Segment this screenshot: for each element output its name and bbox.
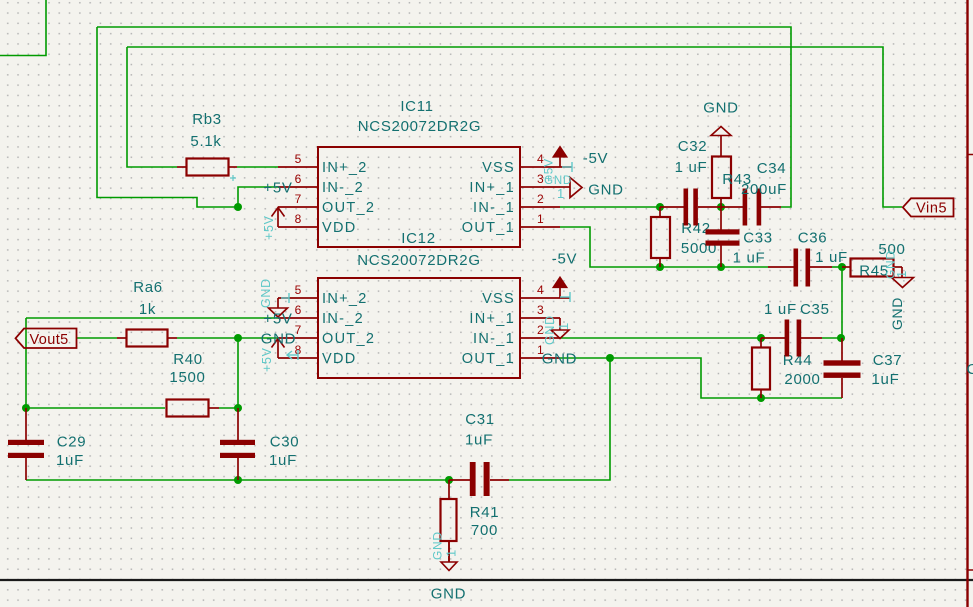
svg-text:+5V: +5V [263, 180, 292, 197]
svg-text:1k: 1k [139, 301, 156, 318]
svg-text:R41: R41 [470, 504, 500, 521]
svg-text:200uF: 200uF [741, 181, 787, 198]
junction [757, 334, 765, 342]
svg-text:C36: C36 [798, 230, 828, 247]
junction [837, 334, 845, 342]
wire [26, 479, 449, 481]
svg-text:1 uF: 1 uF [675, 159, 708, 176]
IC12 pin numbers [295, 283, 545, 357]
svg-text:+5V: +5V [260, 347, 274, 372]
svg-text:1uF: 1uF [465, 432, 493, 449]
wire [560, 337, 761, 339]
resistor R42 [651, 207, 717, 267]
junction [234, 404, 242, 412]
svg-text:GND: GND [431, 586, 466, 603]
svg-text:5: 5 [295, 283, 302, 297]
capacitor C33 [706, 207, 773, 267]
capacitor C35 [761, 301, 830, 357]
ground at R45 [889, 267, 914, 330]
svg-text:1: 1 [444, 549, 459, 557]
IC11 pin numbers [295, 152, 545, 226]
wire [177, 337, 278, 339]
global label Vout5 [16, 329, 77, 349]
resistor R41 [441, 480, 500, 562]
junction [717, 263, 725, 271]
hidden pin text IC11 right [542, 158, 573, 201]
svg-text:Vin5: Vin5 [916, 201, 947, 217]
capacitor C31 [449, 411, 509, 496]
wire [237, 338, 239, 408]
resistor R40 [167, 351, 220, 417]
wire [660, 266, 768, 268]
power -5V at IC11 pin 4 [553, 147, 608, 168]
hidden pin text R45 [884, 250, 910, 279]
wire [237, 166, 278, 168]
resistor R45 [842, 241, 906, 280]
svg-text:C35: C35 [800, 301, 830, 318]
ground at IC12 pin 3 [551, 318, 569, 339]
svg-text:VDD: VDD [322, 220, 357, 236]
global label Vin5 [903, 198, 954, 216]
svg-text:IN-_1: IN-_1 [473, 331, 515, 347]
ground at IC12 pin 5 [269, 298, 288, 317]
junction [22, 404, 30, 412]
svg-text:+5V: +5V [262, 215, 276, 240]
hierarchical label GND at IC11 pin 3 [560, 178, 624, 199]
wire [97, 27, 791, 207]
svg-text:GND: GND [543, 315, 557, 345]
wire [560, 358, 842, 398]
svg-text:IN-_1: IN-_1 [473, 200, 515, 216]
capacitor C37 [824, 338, 903, 398]
resistor Ra6 [117, 279, 177, 347]
power +5V arrow at IC11 pin 8 [272, 208, 285, 228]
svg-text:2000: 2000 [784, 371, 820, 388]
svg-text:7: 7 [295, 192, 302, 206]
svg-text:2: 2 [537, 192, 544, 206]
svg-text:IC11: IC11 [400, 98, 433, 115]
hidden pin text R41 [431, 531, 459, 560]
svg-text:GND: GND [259, 278, 273, 308]
svg-text:OUT_2: OUT_2 [322, 200, 375, 216]
svg-text:6: 6 [295, 172, 302, 186]
svg-text:OUT_1: OUT_1 [462, 220, 515, 236]
svg-text:GND: GND [703, 100, 738, 117]
svg-text:1 uF: 1 uF [815, 249, 848, 266]
wire [238, 187, 278, 207]
svg-text:IN+_2: IN+_2 [322, 291, 368, 307]
svg-text:C33: C33 [743, 230, 773, 247]
sheet border bottom [0, 579, 973, 581]
svg-text:1 uF: 1 uF [733, 250, 766, 267]
svg-text:C37: C37 [873, 352, 903, 369]
svg-text:1500: 1500 [169, 369, 205, 386]
svg-text:VSS: VSS [482, 160, 515, 176]
svg-text:C29: C29 [57, 434, 87, 451]
svg-text:-5V: -5V [552, 251, 577, 268]
wire [26, 317, 278, 319]
capacitor C29 [8, 408, 86, 480]
svg-text:-5V: -5V [583, 150, 608, 167]
ground at R43 top [703, 100, 738, 157]
svg-text:R40: R40 [173, 351, 203, 368]
wire [560, 227, 660, 267]
svg-text:8: 8 [295, 212, 302, 226]
svg-text:1uF: 1uF [269, 452, 297, 469]
IC11 pins left [278, 167, 318, 227]
wire [0, 0, 46, 56]
wire [822, 337, 841, 339]
svg-text:VDD: VDD [322, 351, 357, 367]
power -5V at IC12 pin 4 [552, 251, 577, 299]
svg-text:6: 6 [295, 303, 302, 317]
junction [234, 476, 242, 484]
junction [656, 203, 664, 211]
svg-text:IN+_1: IN+_1 [469, 180, 515, 196]
svg-text:1uF: 1uF [56, 452, 84, 469]
wire [841, 267, 843, 338]
svg-text:1 uF: 1 uF [764, 301, 797, 318]
svg-text:+5V: +5V [263, 311, 292, 328]
svg-text:C34: C34 [757, 160, 787, 177]
junction [234, 203, 242, 211]
svg-text:GND: GND [261, 331, 296, 348]
svg-text:OUT_1: OUT_1 [462, 351, 515, 367]
svg-text:GND: GND [889, 297, 905, 330]
svg-text:1: 1 [894, 270, 909, 278]
capacitor C32 [660, 138, 721, 226]
svg-text:IC12: IC12 [401, 230, 436, 247]
resistor R44 [752, 338, 821, 398]
junction [445, 476, 453, 484]
wire [127, 47, 902, 207]
junction [717, 203, 725, 211]
wire [560, 206, 660, 208]
capacitor C34 [721, 160, 787, 226]
IC11 pin names [322, 160, 515, 236]
svg-text:5: 5 [295, 152, 302, 166]
ground at R41 [441, 541, 457, 571]
svg-text:GND: GND [542, 351, 577, 368]
svg-text:4: 4 [537, 283, 544, 297]
IC12 pin names [322, 291, 515, 367]
svg-text:IN-_2: IN-_2 [322, 311, 364, 327]
svg-text:3: 3 [537, 303, 544, 317]
wire [25, 318, 27, 408]
svg-text:OUT_2: OUT_2 [322, 331, 375, 347]
resistor Rb3 [177, 111, 237, 176]
wire [26, 407, 165, 409]
svg-text:VSS: VSS [482, 291, 515, 307]
svg-text:1: 1 [556, 322, 571, 330]
hidden pin text IC11 left [230, 175, 276, 240]
wire [832, 266, 842, 268]
junction [234, 334, 242, 342]
svg-text:NCS20072DR2G: NCS20072DR2G [358, 118, 481, 135]
junction [606, 354, 614, 362]
svg-text:Ra6: Ra6 [133, 279, 163, 296]
sheet border right [968, 0, 973, 607]
svg-text:Rb3: Rb3 [192, 111, 222, 128]
resistor R43 [712, 157, 752, 208]
svg-text:5.1k: 5.1k [190, 133, 221, 150]
svg-text:700: 700 [471, 522, 498, 539]
IC12 pins left [278, 298, 318, 358]
hidden pin text IC12 left [259, 278, 298, 372]
svg-text:IN-_2: IN-_2 [322, 180, 364, 196]
svg-text:GND: GND [431, 531, 445, 560]
IC11 pins right [520, 167, 572, 227]
hidden pin text IC12 right [543, 292, 571, 345]
wire [77, 337, 117, 339]
junction [656, 263, 664, 271]
wire [509, 358, 610, 480]
capacitor C36 [768, 230, 848, 287]
svg-text:C: C [967, 361, 973, 378]
wire [127, 47, 177, 167]
svg-text:C32: C32 [678, 138, 708, 155]
svg-text:1uF: 1uF [872, 371, 900, 388]
svg-text:1: 1 [537, 212, 544, 226]
junction [838, 263, 846, 271]
op-amp U IC12 [318, 230, 520, 378]
op-amp U IC11 [318, 98, 520, 247]
svg-text:IN+_2: IN+_2 [322, 160, 368, 176]
svg-text:C30: C30 [270, 434, 300, 451]
capacitor C30 [220, 408, 299, 480]
wire [97, 27, 238, 207]
svg-text:GND: GND [588, 182, 623, 199]
junction [757, 394, 765, 402]
svg-text:IN+_1: IN+_1 [469, 311, 515, 327]
IC12 pins right [520, 298, 570, 358]
power +5V arrow at IC12 pin 8 [272, 339, 285, 359]
wire [219, 407, 238, 409]
svg-text:1: 1 [557, 186, 565, 201]
svg-text:C31: C31 [465, 411, 495, 428]
svg-text:Vout5: Vout5 [30, 332, 69, 348]
svg-text:NCS20072DR2G: NCS20072DR2G [357, 252, 480, 269]
